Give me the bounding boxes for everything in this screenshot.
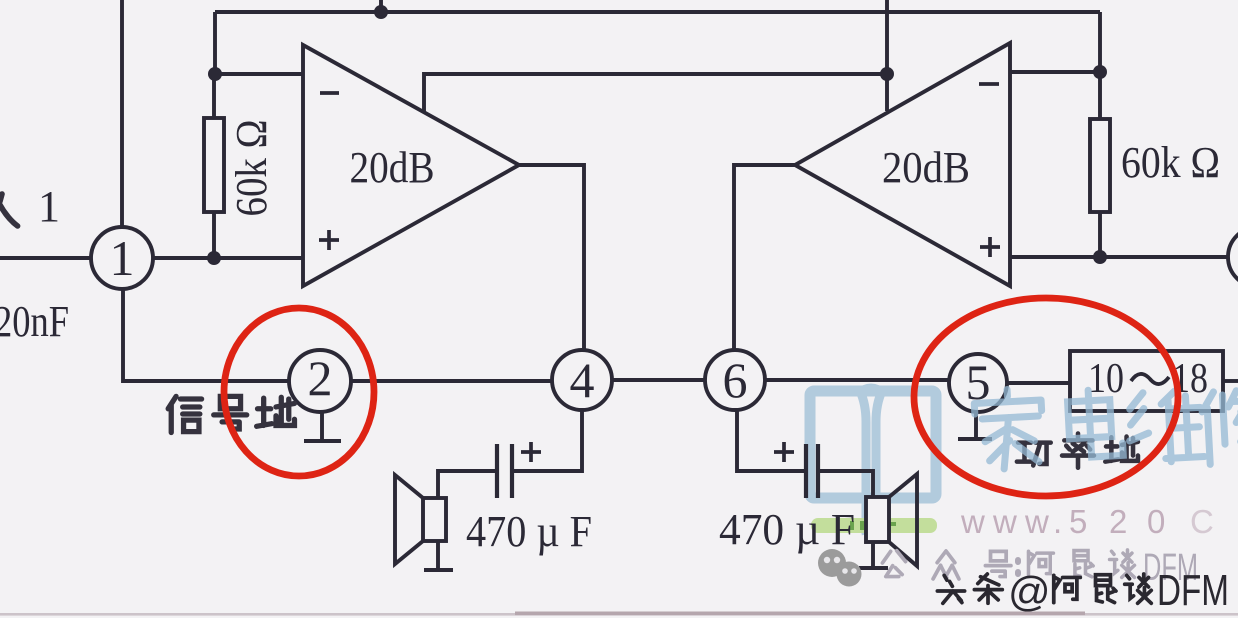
ground speaker1 [424, 541, 453, 570]
svg-text:2: 2 [1109, 503, 1127, 540]
svg-text:20dB: 20dB [882, 143, 970, 192]
svg-text:6: 6 [723, 352, 748, 408]
node 2 [289, 350, 351, 412]
wire top right vertical [885, 0, 889, 111]
junction R2 top [1093, 65, 1107, 79]
wire right bus drop [1098, 12, 1102, 72]
wire node2 to node4 [351, 379, 552, 383]
node 1 [91, 227, 153, 289]
caption black toutiao [937, 574, 1151, 603]
minus U1 [320, 91, 339, 95]
wire node4 down [514, 410, 582, 471]
node 5 [949, 354, 1007, 412]
wire node4 to node6 [612, 378, 705, 382]
svg-text:4: 4 [570, 352, 595, 408]
svg-text:0: 0 [1147, 503, 1165, 540]
wechat emoji pair [818, 549, 862, 587]
watermark gray caption gongzhonghao [882, 550, 1134, 579]
wire top bus [215, 10, 1100, 14]
svg-text:C: C [1190, 503, 1214, 540]
wire output left opamp [519, 165, 584, 350]
op-amp U2 [795, 43, 1010, 286]
junction R2 bottom [1093, 250, 1107, 264]
plus C1 [521, 442, 541, 462]
resistor R1 [204, 118, 224, 212]
label power-ground (gong lv di) [1017, 434, 1138, 468]
speaker SP1 [395, 475, 446, 564]
red ellipse left [224, 308, 374, 476]
wire top left vertical [120, 0, 124, 227]
wire C1 to speaker [438, 471, 497, 498]
svg-text:470 µ F: 470 µ F [719, 505, 855, 554]
wire noninverting input right [1010, 255, 1229, 259]
wire inverting input left [215, 72, 303, 76]
wire left bus drop [213, 12, 217, 74]
wire node6 down [737, 411, 805, 471]
resistor R2 [1090, 119, 1110, 212]
svg-text:60k Ω: 60k Ω [1121, 138, 1220, 187]
resistor R2 leads [1098, 72, 1102, 257]
wire node1 down to node2 [123, 289, 289, 381]
svg-text:DFM: DFM [1157, 566, 1229, 615]
svg-text:.: . [1053, 503, 1062, 540]
junction feedback right [880, 67, 894, 81]
red ellipse right [914, 298, 1178, 496]
watermark book icon [810, 388, 936, 532]
node output right clipped [1228, 227, 1238, 287]
svg-text:w: w [1024, 503, 1049, 540]
svg-text:1: 1 [38, 182, 60, 231]
svg-text:20nF: 20nF [0, 297, 69, 346]
svg-text:w: w [992, 503, 1017, 540]
pin box 10-18 [1070, 351, 1223, 411]
svg-text:60k Ω: 60k Ω [227, 120, 276, 217]
svg-text:5: 5 [1069, 503, 1087, 540]
wire inverting input right [1010, 70, 1100, 74]
svg-text:2: 2 [308, 350, 333, 406]
minus U2 [979, 82, 999, 86]
wire feedback left [424, 74, 887, 112]
capacitor C2 [806, 444, 818, 498]
junction R1 bottom [207, 251, 221, 265]
wire left edge to node 1 [0, 256, 91, 260]
label input ru (clipped) [0, 194, 18, 226]
svg-text:w: w [960, 503, 985, 540]
watermark green bar [811, 518, 937, 533]
wire node5 to box [1007, 381, 1070, 385]
node 6 [705, 350, 765, 410]
ground power [958, 412, 992, 439]
node 4 [552, 350, 612, 410]
watermark www520 text [960, 503, 1214, 540]
svg-text:@: @ [1008, 568, 1051, 615]
resistor R1 leads [212, 74, 216, 258]
schematic labels [0, 120, 1220, 557]
plus U2 [980, 237, 1000, 257]
svg-text:1: 1 [110, 230, 135, 286]
wire noninverting input left [153, 256, 303, 260]
wire output right opamp [734, 165, 795, 350]
op-amp U1 [303, 45, 519, 286]
wire box to right edge [1223, 379, 1238, 383]
ground signal [304, 412, 341, 441]
opamp signs [319, 84, 1000, 462]
capacitor C1 [497, 444, 512, 498]
wire C2 to speaker [818, 471, 873, 497]
label signal-ground (xin hao di) [168, 396, 294, 432]
svg-text:10: 10 [1088, 356, 1124, 402]
watermark blue text jia dian wei xiu [974, 388, 1238, 471]
bottom bar [0, 613, 1238, 616]
wire node6 to node5 [765, 378, 949, 382]
svg-text:20dB: 20dB [350, 143, 435, 192]
plus U1 [319, 230, 339, 250]
speaker SP2 [866, 474, 917, 566]
svg-text:470 µ F: 470 µ F [466, 507, 592, 556]
junction top stub [374, 5, 388, 19]
plus C2 [774, 442, 794, 462]
junction R1 top [208, 67, 222, 81]
tilde in box [1131, 374, 1169, 384]
wire top stub [379, 0, 383, 12]
ground speaker2 [859, 542, 888, 568]
